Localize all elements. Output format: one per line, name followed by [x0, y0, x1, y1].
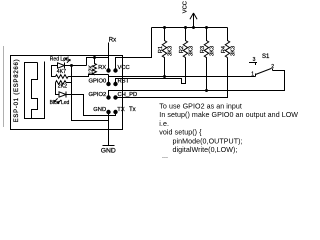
- pad CH_PD: [113, 95, 117, 99]
- resistor R2: [183, 28, 187, 58]
- svg-text:R3: R3: [200, 46, 206, 53]
- svg-text:VCC: VCC: [183, 1, 189, 13]
- pad TX: [113, 110, 117, 114]
- svg-text:To use GPIO2 as an input: To use GPIO2 as an input: [159, 103, 242, 111]
- resistor R4: [225, 28, 229, 58]
- junction: [93, 56, 96, 59]
- svg-text:3K3: 3K3: [188, 46, 194, 56]
- resistor R1: [162, 28, 166, 77]
- svg-text:Tx: Tx: [129, 107, 136, 113]
- svg-text:void setup() {: void setup() {: [159, 129, 202, 137]
- LED D2 blue: [54, 92, 66, 104]
- pad GPIO2: [106, 95, 110, 99]
- svg-text:Blue Led: Blue Led: [50, 100, 70, 106]
- wire CH_PD net: [116, 58, 228, 98]
- svg-text:1: 1: [251, 71, 254, 77]
- svg-text:digitalWrite(0,LOW);: digitalWrite(0,LOW);: [173, 146, 238, 154]
- wire: [68, 75, 108, 77]
- svg-text:Rx: Rx: [109, 37, 116, 43]
- switch S1 terminal 1: [255, 74, 257, 77]
- junction: [184, 26, 187, 29]
- junction: [205, 26, 208, 29]
- wire: [66, 95, 116, 116]
- svg-text:R1: R1: [158, 46, 164, 53]
- svg-text:Red Led: Red Led: [50, 56, 69, 62]
- svg-text:GND: GND: [93, 107, 106, 113]
- pad RST: [113, 82, 117, 86]
- resistor 4K7: [56, 75, 69, 79]
- svg-text:S1: S1: [262, 54, 270, 60]
- svg-text:3: 3: [253, 57, 256, 63]
- svg-text:ESP-01 (ESP8266): ESP-01 (ESP8266): [14, 59, 20, 123]
- svg-text:GPIO0: GPIO0: [88, 79, 106, 85]
- junction: [192, 26, 195, 29]
- svg-text:3K3: 3K3: [167, 46, 173, 56]
- svg-text:In setup() make GPIO0 an outpu: In setup() make GPIO0 an output and LOW: [159, 111, 298, 119]
- wire: [65, 65, 87, 67]
- svg-text:RX: RX: [98, 65, 106, 71]
- pad GND: [106, 110, 110, 114]
- svg-text:GND: GND: [101, 147, 116, 154]
- wire: [87, 58, 109, 66]
- resistor 12K: [93, 58, 97, 75]
- svg-text:3K3: 3K3: [230, 46, 236, 56]
- wire GPIO2 net: [109, 71, 285, 98]
- pad VCC: [113, 68, 117, 72]
- svg-text:3K3: 3K3: [209, 46, 215, 56]
- junction: [205, 89, 208, 92]
- switch S1 lever: [256, 68, 272, 74]
- wire GND net: [72, 66, 109, 121]
- junction: [163, 26, 166, 29]
- wire RST net: [116, 58, 186, 85]
- wire: [56, 83, 60, 95]
- switch S1 pin 3 stub: [249, 63, 257, 66]
- LED D1 red: [58, 58, 71, 69]
- junction node N1: [70, 64, 73, 67]
- svg-text:pinMode(0,OUTPUT);: pinMode(0,OUTPUT);: [173, 137, 243, 145]
- wire Rx: [108, 43, 110, 71]
- wire: [52, 66, 58, 77]
- svg-text:R4: R4: [221, 45, 227, 53]
- svg-text:...: ...: [162, 152, 168, 160]
- caption text: [159, 103, 298, 160]
- page edge mark: [3, 46, 5, 127]
- svg-text:2: 2: [271, 64, 274, 70]
- junction: [163, 75, 166, 78]
- ESP-01 module body U1: [11, 56, 123, 130]
- VCC bus wire: [152, 27, 228, 29]
- switch S1 terminal 2: [272, 69, 274, 71]
- svg-text:TX: TX: [117, 107, 125, 113]
- svg-text:R2: R2: [179, 46, 185, 53]
- resistor R3: [204, 28, 208, 91]
- wire: [66, 82, 72, 84]
- svg-text:GPIO2: GPIO2: [88, 92, 106, 98]
- svg-text:VCC: VCC: [118, 65, 130, 71]
- PCB antenna: [25, 62, 45, 119]
- wire GND down: [108, 112, 110, 146]
- wire GPIO0 net: [109, 75, 256, 85]
- ground symbol: [103, 145, 115, 147]
- pad RX: [106, 68, 110, 72]
- svg-text:2K2: 2K2: [58, 84, 67, 90]
- svg-text:i.e.: i.e.: [159, 120, 169, 128]
- resistor 2K2: [56, 81, 67, 85]
- power VCC symbol: [190, 13, 197, 28]
- svg-text:RST: RST: [118, 79, 130, 85]
- pad GPIO0: [106, 82, 110, 86]
- wire VCC: [116, 28, 152, 71]
